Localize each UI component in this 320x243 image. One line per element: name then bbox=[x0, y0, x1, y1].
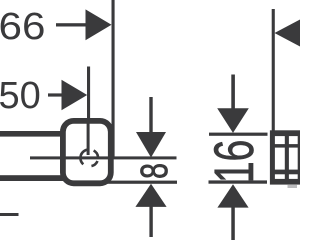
svg-text:6: 6 bbox=[203, 140, 266, 162]
wall direction arrowhead bbox=[275, 19, 302, 47]
dim 8 lower reference line bbox=[107, 181, 177, 184]
side view white cells row3 bbox=[275, 174, 285, 179]
bar top edge bbox=[0, 131, 64, 137]
wall plate (rounded square front view) bbox=[63, 121, 111, 183]
hook swivel arc symbol bbox=[80, 150, 98, 167]
dim 66 arrowhead bbox=[86, 9, 112, 40]
dim 16 lower arrowhead bbox=[217, 184, 248, 207]
svg-text:50: 50 bbox=[0, 75, 41, 117]
dim 50 extension line bbox=[87, 67, 90, 123]
centerline bbox=[30, 156, 177, 159]
side view lower nub bbox=[288, 185, 298, 188]
dim 8 lower arrowhead bbox=[135, 184, 166, 207]
side view white cells row2 bbox=[275, 148, 285, 170]
dim 16 upper reference line bbox=[209, 133, 268, 136]
dim 16 lower reference line bbox=[209, 180, 268, 183]
dim 66 extension line bbox=[112, 0, 115, 158]
svg-text:8: 8 bbox=[134, 163, 176, 179]
dim 16 upper arrowhead bbox=[217, 108, 249, 133]
dim 50 arrowhead bbox=[62, 80, 88, 110]
svg-text:1: 1 bbox=[203, 161, 266, 183]
svg-text:66: 66 bbox=[0, 5, 45, 48]
dim 16 lower arrow stem bbox=[231, 207, 235, 240]
dim 50 leader line bbox=[48, 93, 63, 96]
dim 8 lower arrow stem bbox=[149, 207, 152, 238]
bar bottom edge bbox=[0, 175, 64, 181]
side view body bbox=[270, 130, 302, 184]
side view white cells row1 bbox=[275, 136, 285, 144]
baseline tick bottom-left bbox=[0, 213, 19, 216]
dim 8 upper arrowhead bbox=[136, 132, 166, 158]
dim 8 upper arrow stem bbox=[149, 97, 152, 133]
dim 16 upper arrow stem bbox=[231, 75, 235, 110]
dim 66 leader line bbox=[56, 23, 86, 26]
wall line bbox=[272, 9, 275, 131]
hook pin line inside plate bbox=[87, 121, 90, 155]
